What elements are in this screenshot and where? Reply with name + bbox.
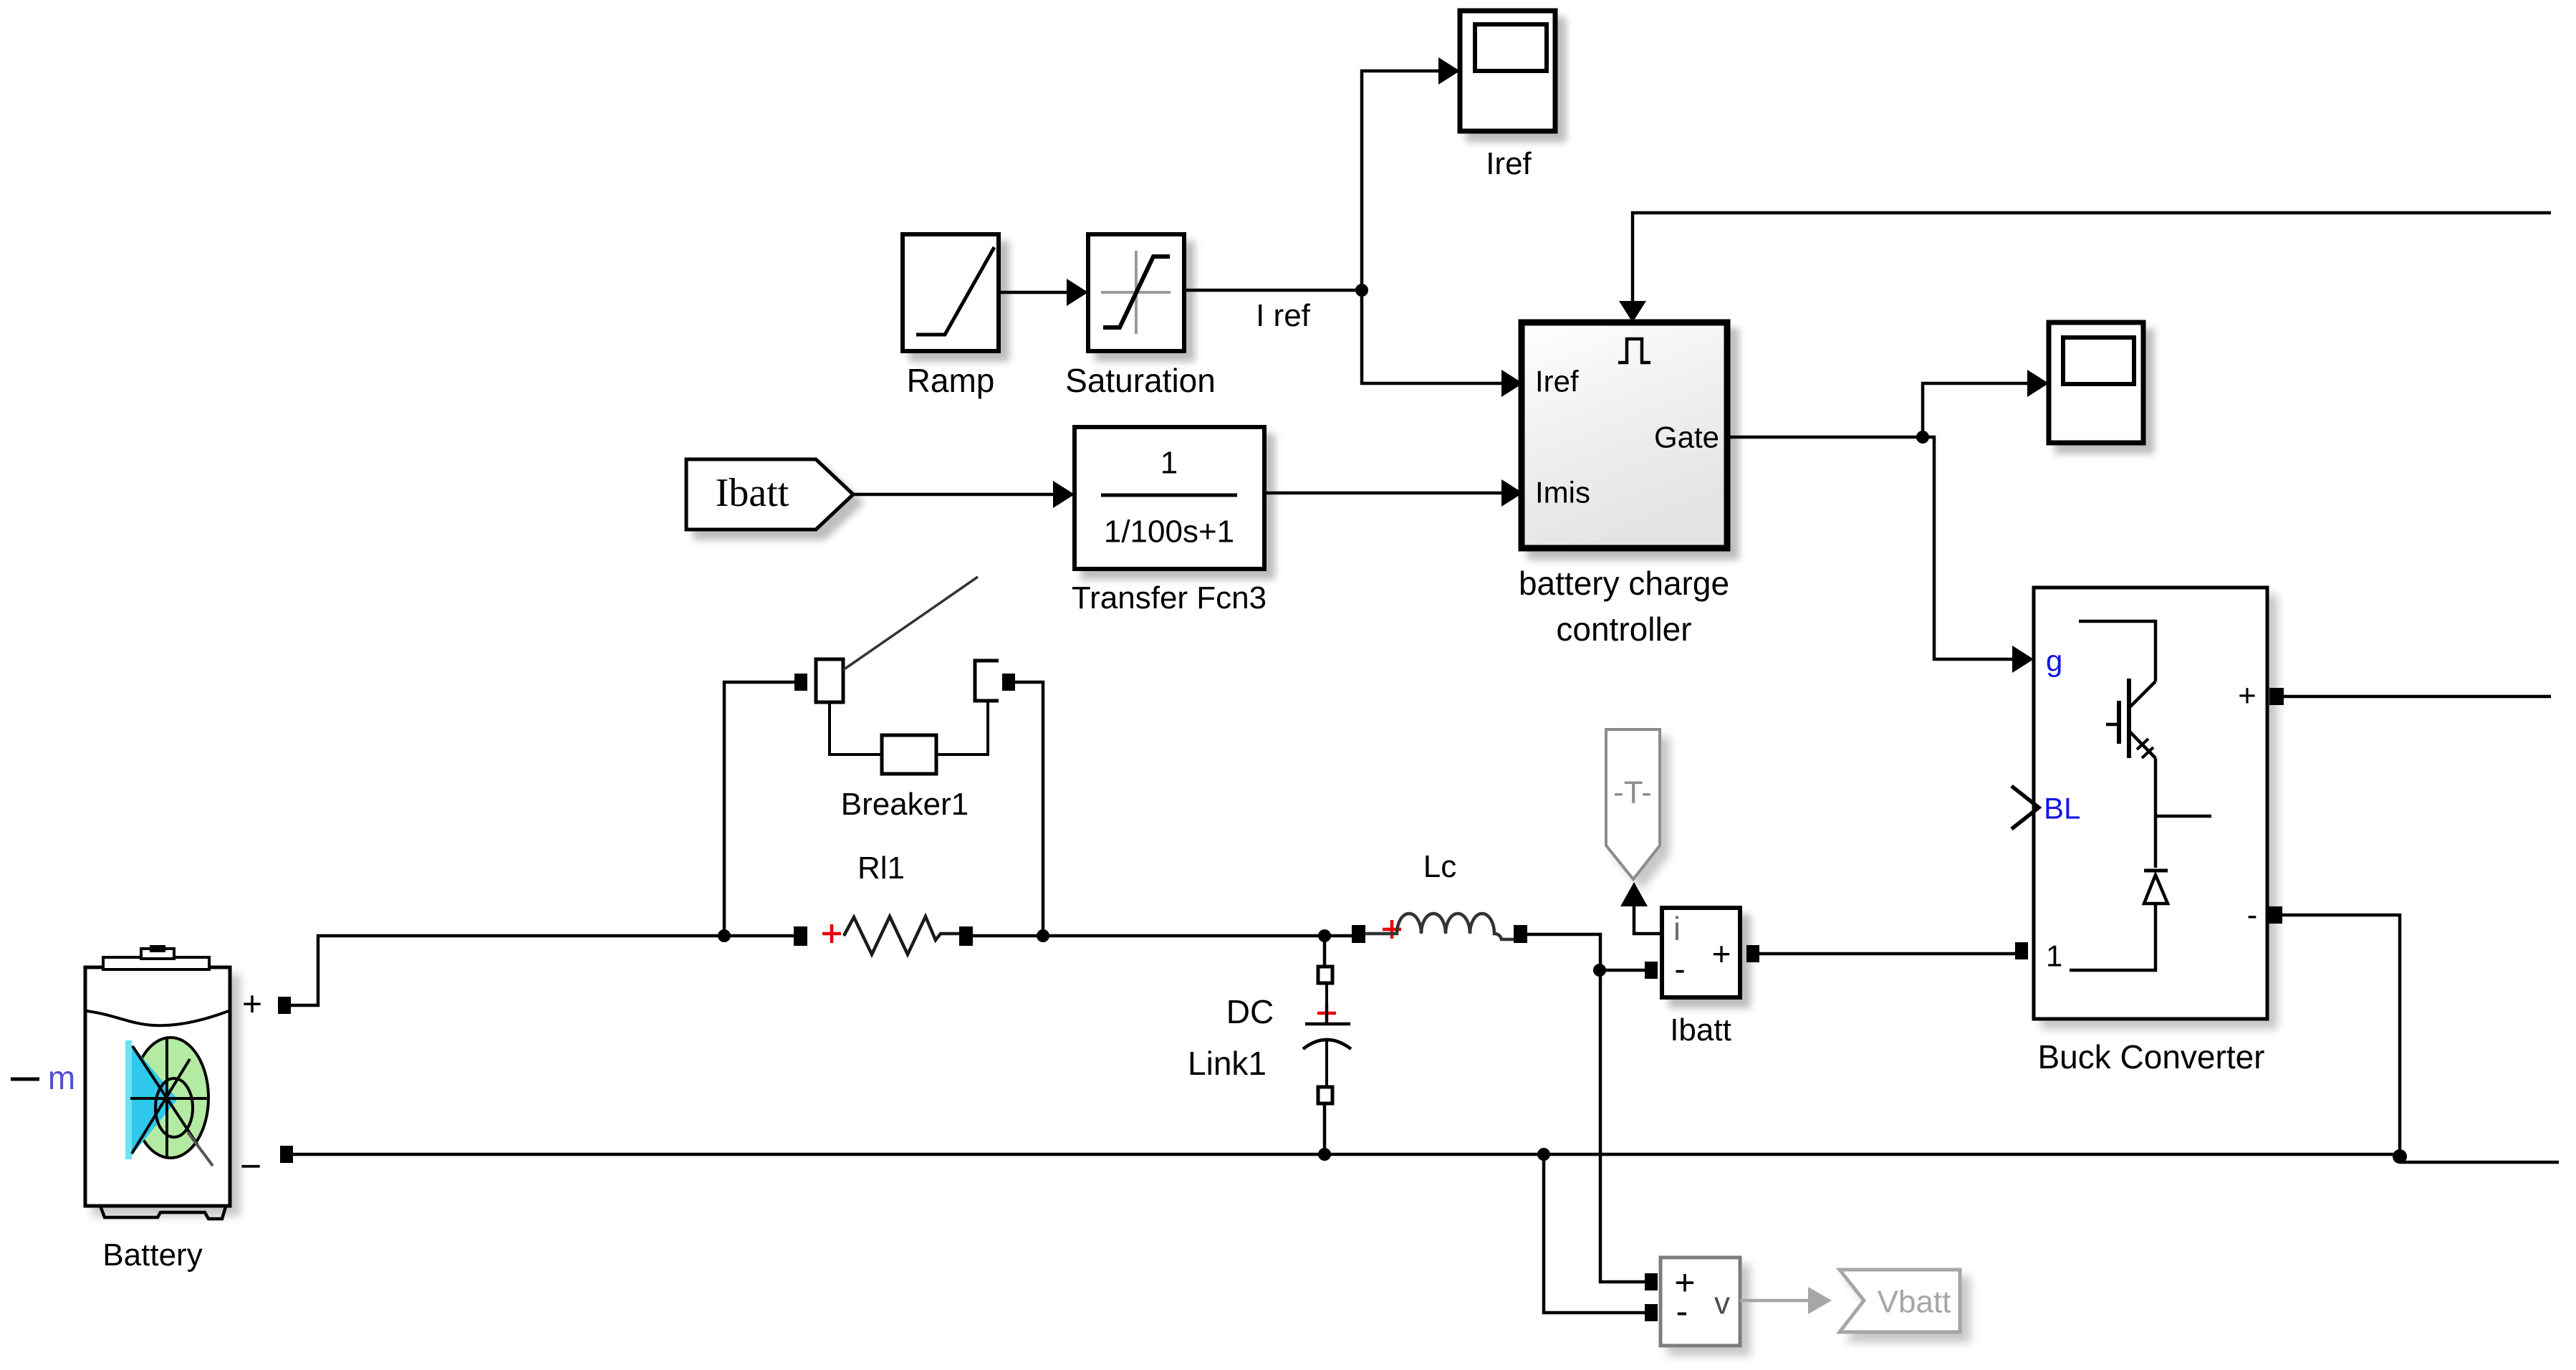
svg-text:Ibatt: Ibatt: [716, 471, 789, 515]
BL chevron port: [2012, 786, 2039, 829]
svg-text:I ref: I ref: [1256, 298, 1311, 333]
port resistor right: [959, 926, 973, 946]
port Vbatt minus: [1645, 1304, 1658, 1321]
battery recycle logo: [125, 1038, 213, 1166]
port battery +: [278, 997, 291, 1014]
port battery -: [280, 1146, 293, 1163]
scope Iref: [1460, 11, 1555, 131]
svg-text:Vbatt: Vbatt: [1878, 1285, 1951, 1320]
wire Buck - output down to bottom rail: [2282, 915, 2400, 1154]
svg-text:-T-: -T-: [1613, 775, 1652, 810]
block Buck Converter: [2034, 588, 2267, 1019]
wire bottom rail right segment: [2400, 1161, 2559, 1164]
svg-text:v: v: [1714, 1286, 1730, 1321]
goto tag -T-: [1606, 729, 1660, 879]
arrowhead into Buck g: [2012, 646, 2034, 673]
wire bottom rail node down to Vbatt - input: [1544, 1154, 1646, 1313]
svg-text:Ramp: Ramp: [907, 362, 995, 399]
wire Ibatt i output to goto tag: [1634, 906, 1662, 934]
node Vbatt minus junction: [1537, 1148, 1550, 1161]
svg-text:+: +: [1712, 935, 1731, 972]
wire trigger feedback from right edge: [1633, 213, 2551, 314]
node G junction: [1916, 431, 1929, 444]
block Transfer Fcn3: [1075, 427, 1264, 569]
svg-text:Ibatt: Ibatt: [1670, 1012, 1731, 1048]
svg-text:m: m: [48, 1059, 75, 1096]
svg-text:Link1: Link1: [1188, 1045, 1267, 1082]
resistor Rl1 zigzag: [844, 916, 959, 954]
breaker Breaker1 left contact: [816, 659, 843, 702]
port resistor left: [794, 926, 807, 946]
breaker coil: [882, 735, 936, 774]
svg-text:Iref: Iref: [1486, 146, 1532, 181]
port inductor left: [1352, 925, 1365, 943]
svg-text:DC: DC: [1226, 993, 1274, 1030]
port Buck 1: [2015, 942, 2028, 959]
block Vbatt voltage measurement: [1661, 1258, 1740, 1346]
diode D1 inside Buck Converter: [2070, 871, 2168, 970]
port Buck +: [2269, 688, 2284, 705]
breaker right contact: [975, 661, 999, 701]
port Ibatt minus: [1645, 962, 1658, 979]
port inductor right: [1514, 925, 1527, 943]
wire Gate output to node G: [1727, 436, 1923, 439]
inductor Lc coil: [1365, 914, 1514, 939]
port Vbatt plus: [1645, 1273, 1658, 1290]
port capacitor bottom: [1318, 1087, 1332, 1103]
pulse icon (trigger): [1618, 339, 1650, 363]
arrowhead into scope Iref: [1438, 57, 1460, 85]
wire capacitor top stem: [1323, 936, 1327, 968]
svg-text:i: i: [1673, 910, 1681, 947]
wire Vbatt v output gray: [1740, 1299, 1810, 1303]
port capacitor top: [1318, 967, 1332, 983]
wire Ramp to Saturation: [999, 291, 1070, 294]
wire Ibatt + output to Buck 1 input: [1759, 952, 2017, 956]
wire node A up to breaker left port: [724, 682, 794, 936]
inductor Lc red plus: [1383, 920, 1401, 939]
wire breaker right port down to node B: [1015, 682, 1043, 936]
svg-text:-: -: [2247, 898, 2258, 933]
label battery m output: [11, 1078, 39, 1081]
arrowhead into controller Iref: [1501, 370, 1523, 397]
goto tag Vbatt: [1840, 1270, 1960, 1332]
node DC link bottom junction: [1318, 1148, 1331, 1161]
IGBT Q1 inside Buck Converter: [2079, 621, 2211, 868]
arrowhead trigger into controller top: [1619, 301, 1646, 322]
node C junction: [1593, 964, 1606, 977]
scope (gate): [2049, 322, 2143, 443]
capacitor DC Link1 red plus: [1317, 1004, 1336, 1022]
node B junction: [1037, 929, 1049, 942]
wire node Iref down to controller Iref input: [1362, 290, 1504, 383]
arrowhead into Transfer Fcn3: [1053, 481, 1075, 508]
node DC link top junction: [1318, 929, 1331, 942]
battery B1 icon: [85, 967, 230, 1206]
arrowhead into Saturation: [1067, 279, 1088, 306]
svg-text:controller: controller: [1556, 610, 1691, 648]
svg-text:Breaker1: Breaker1: [841, 787, 969, 822]
wire node G to Buck g input: [1923, 437, 2015, 659]
battery cap: [103, 945, 209, 969]
svg-text:Battery: Battery: [102, 1237, 202, 1273]
svg-text:-: -: [1674, 950, 1685, 987]
wire Transfer Fcn3 to controller Imis input: [1264, 492, 1504, 495]
block battery charge controller: [1522, 322, 1727, 548]
svg-text:1: 1: [1160, 446, 1178, 481]
block Ibatt current measurement: [1662, 908, 1740, 997]
svg-text:Transfer Fcn3: Transfer Fcn3: [1072, 580, 1267, 615]
svg-text:Iref: Iref: [1535, 365, 1579, 398]
port Ibatt plus: [1746, 945, 1759, 962]
battery bottom rim: [100, 1206, 226, 1219]
svg-text:Saturation: Saturation: [1065, 362, 1216, 399]
battery liquid line: [87, 1011, 229, 1025]
arrowhead into controller Imis: [1501, 479, 1523, 507]
svg-text:Imis: Imis: [1535, 476, 1590, 509]
svg-text:-: -: [1676, 1291, 1688, 1331]
arrowhead up into goto -T-: [1620, 882, 1648, 906]
wire node Iref up to scope Iref: [1362, 71, 1441, 290]
arrowhead into gate scope: [2027, 370, 2049, 397]
arrowhead gray into Vbatt tag: [1808, 1287, 1832, 1314]
svg-text:1: 1: [2046, 939, 2062, 973]
svg-text:+: +: [242, 986, 262, 1024]
svg-text:−: −: [240, 1146, 261, 1187]
capacitor DC Link1 plates: [1303, 984, 1351, 1088]
wire capacitor bottom stem: [1323, 1103, 1327, 1154]
node A junction: [718, 929, 731, 942]
node Buck minus rail junction: [2393, 1149, 2407, 1164]
svg-text:BL: BL: [2044, 792, 2080, 825]
svg-text:g: g: [2046, 644, 2062, 678]
wire node C down to Vbatt + input: [1600, 970, 1646, 1282]
wire resistor to inductor rail: [972, 934, 1352, 938]
svg-text:Rl1: Rl1: [857, 851, 905, 886]
svg-text:Gate: Gate: [1654, 421, 1719, 454]
wire node C to Ibatt - input: [1600, 969, 1646, 972]
svg-text:1/100s+1: 1/100s+1: [1104, 514, 1234, 550]
wire Saturation to node Iref: [1184, 289, 1362, 292]
block Ramp: [903, 234, 999, 351]
resistor Rl1 red plus: [822, 924, 841, 943]
svg-text:+: +: [2238, 679, 2257, 714]
breaker switch arm: [843, 577, 978, 670]
wire bottom rail from battery - to node: [293, 1153, 2400, 1156]
wire Buck + output: [2284, 695, 2551, 699]
svg-text:battery charge: battery charge: [1519, 565, 1729, 602]
inport Ibatt: [686, 459, 853, 530]
svg-text:Buck Converter: Buck Converter: [2037, 1038, 2264, 1076]
port breaker left: [794, 674, 807, 691]
breaker internal wires: [830, 701, 988, 755]
svg-text:Lc: Lc: [1423, 849, 1456, 884]
wire battery + up to positive rail: [291, 936, 794, 1005]
wire inport Ibatt to Transfer Fcn3: [853, 493, 1056, 497]
block Saturation: [1088, 234, 1184, 351]
wire inductor Lc to node C: [1527, 934, 1600, 970]
port Buck -: [2268, 906, 2282, 924]
wire node G to scope: [1923, 383, 2030, 437]
node Iref junction: [1355, 284, 1368, 297]
port breaker right: [1002, 674, 1015, 691]
